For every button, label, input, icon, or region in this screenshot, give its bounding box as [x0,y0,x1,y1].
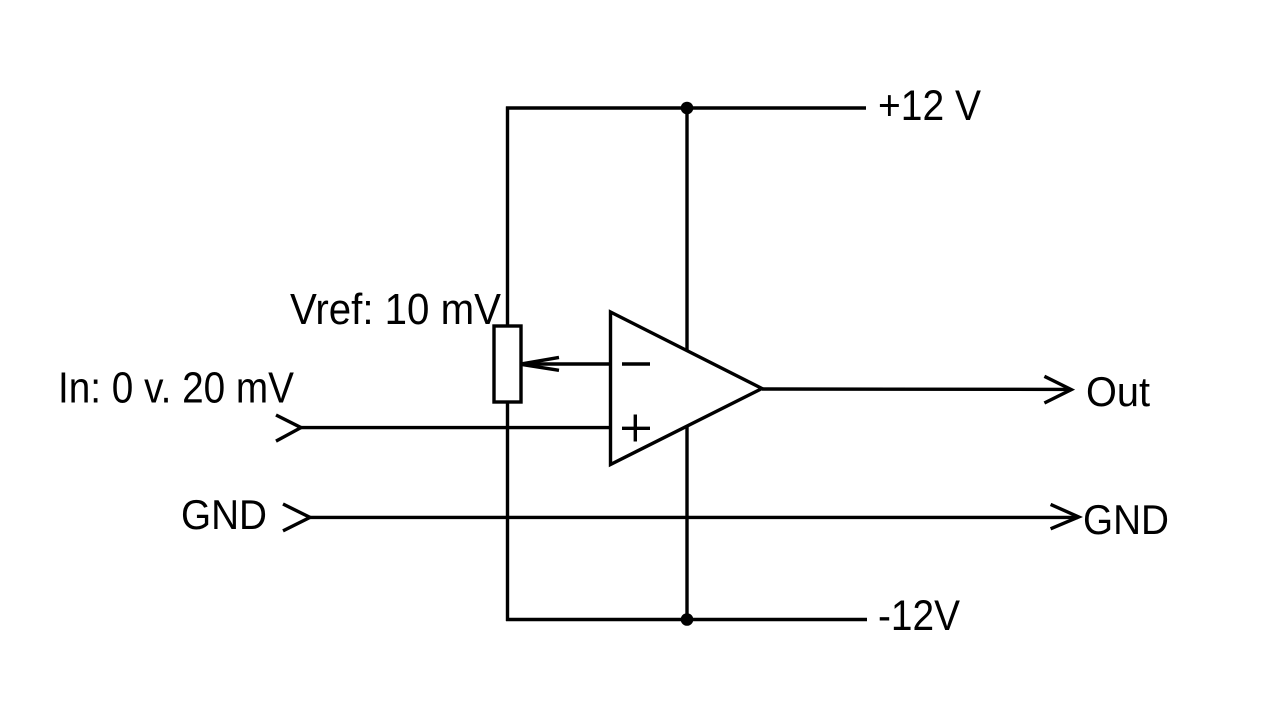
svg-text:Out: Out [1086,368,1150,415]
node junction bottom rail [681,613,694,626]
svg-text:-12V: -12V [878,592,960,640]
wire wiper to inverting input [520,362,611,365]
wire +12V top rail [506,106,866,109]
input arrow GND left [283,504,310,531]
wire op-amp supply rail vertical [685,108,688,620]
op-amp U1 [611,312,763,465]
svg-text:+12 V: +12 V [878,82,981,130]
wire output [762,387,1071,391]
output arrow GND right [1051,504,1079,528]
wire In to non-inverting input [301,426,611,429]
potentiometer R1 body [494,326,521,402]
output arrow Out [1044,376,1071,403]
op-amp non-inverting input plus sign [622,415,650,442]
svg-text:GND: GND [1083,496,1169,543]
potentiometer wiper arrow [520,357,559,370]
wire -12V bottom rail [506,618,867,621]
svg-text:GND: GND [181,491,267,538]
svg-text:In: 0 v. 20 mV: In: 0 v. 20 mV [58,364,295,413]
wire left vertical upper (top rail to potentiometer) [506,107,509,328]
input arrow In [276,415,301,441]
node junction top rail [681,102,694,115]
svg-text:Vref: 10 mV: Vref: 10 mV [290,285,502,334]
wire GND rail [310,516,1078,519]
op-amp inverting input minus sign [622,362,650,365]
wire left vertical lower (potentiometer to bottom rail) [506,401,509,622]
